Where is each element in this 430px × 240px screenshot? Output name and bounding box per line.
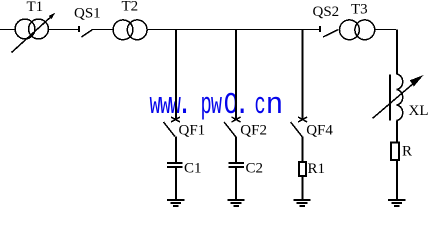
svg-text:R1: R1 [308,161,326,177]
svg-text:C1: C1 [184,161,202,177]
svg-text:p: p [201,88,212,123]
svg-text:c: c [255,88,266,123]
svg-text:R: R [402,144,412,160]
svg-text:QF4: QF4 [306,123,333,139]
svg-text:w: w [211,88,223,123]
svg-text:n: n [266,88,284,123]
svg-text:XL: XL [409,103,429,119]
svg-text:T3: T3 [351,2,368,18]
svg-text:QS2: QS2 [313,4,340,20]
svg-text:QF1: QF1 [179,123,206,139]
svg-text:T1: T1 [27,0,44,15]
svg-text:C2: C2 [246,161,264,177]
svg-text:QF2: QF2 [240,122,267,138]
svg-text:T2: T2 [122,0,139,15]
svg-text:QS1: QS1 [74,6,101,22]
